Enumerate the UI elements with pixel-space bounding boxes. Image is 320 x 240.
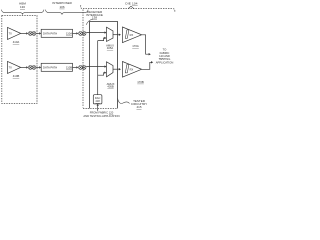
svg-text:DIE 104: DIE 104 (125, 2, 137, 6)
svg-text:410B: 410B (13, 74, 20, 78)
arrowhead (26, 66, 28, 68)
wire into amux A2 (86, 66, 104, 68)
svg-text:RX: RX (130, 67, 134, 71)
data path box 110A (41, 29, 72, 37)
svg-text:418: 418 (95, 99, 100, 103)
leader to TESTER CIRCUITRY (118, 98, 130, 103)
arrowhead (39, 32, 41, 34)
wire from fabric into DAC (97, 105, 99, 111)
wire TX1 to bump (21, 32, 27, 34)
svg-text:170B: 170B (137, 80, 144, 84)
brace tip under DIE label (128, 6, 134, 8)
mux AMUX 405B (107, 62, 115, 89)
wire to data path (36, 32, 39, 34)
receiver interface box U1 (90, 22, 118, 109)
amux2 output wire (113, 68, 119, 70)
arrowhead (76, 32, 78, 34)
svg-text:RX: RX (130, 33, 134, 37)
select line from DAC (97, 41, 99, 96)
arrowhead (26, 32, 28, 34)
arrowhead (105, 65, 107, 67)
leader from RECEIVER INTERFACE label (86, 19, 92, 25)
bump pair B2 (die edge) (79, 32, 86, 36)
svg-text:TX: TX (9, 32, 13, 36)
op-amp RX 170B (123, 62, 142, 78)
brace under INTERPOSER label (46, 10, 89, 15)
svg-text:106: 106 (59, 5, 64, 9)
data path box 110B (41, 63, 72, 71)
label TO FABRIC 120 AND TESTING APPLICATION (156, 48, 174, 65)
rx2 output wire up to arrow (142, 62, 151, 69)
amux1 output wire (113, 34, 119, 36)
svg-text:410A: 410A (13, 40, 20, 44)
DAC 418 (93, 95, 102, 104)
op-amp TX 410A (8, 27, 21, 39)
svg-text:405A: 405A (107, 46, 113, 50)
svg-text:DAC: DAC (95, 96, 101, 100)
bump pair B3 (28, 66, 35, 70)
label RECEIVER INTERFACE 138 (86, 10, 103, 20)
svg-text:170A: 170A (132, 44, 139, 48)
svg-text:405B: 405B (107, 85, 113, 89)
label INTERPOSER 106 (52, 1, 72, 9)
svg-text:DATA PATH: DATA PATH (43, 32, 57, 36)
bump pair B4 (79, 66, 86, 70)
svg-text:TX: TX (9, 66, 13, 70)
wire data path to bump (73, 32, 77, 34)
label TESTER CIRCUITRY 415 (131, 99, 147, 109)
svg-text:138: 138 (92, 16, 97, 20)
wire to data path 2 (36, 66, 39, 68)
svg-text:415: 415 (136, 105, 141, 109)
rx1 output wire down to arrow (142, 35, 149, 54)
brace under HBM label (2, 10, 44, 15)
label HBM 130 (19, 2, 26, 10)
select wire jog into AMUX2 lower input (98, 73, 105, 76)
op-amp TX 410B (8, 61, 21, 73)
arrowhead (105, 31, 107, 33)
arrowhead (76, 66, 78, 68)
wire TX2 to bump (21, 66, 27, 68)
arrowhead (39, 66, 41, 68)
DIE dashed outline (top edge with end curls, left edge, partial bottom) (81, 5, 175, 108)
die dashed bottom segment (88, 107, 118, 109)
op-amp RX 170A (123, 27, 142, 43)
HBM dashed outline (2, 16, 37, 104)
wire into amux A1 (86, 32, 104, 34)
label FROM FABRIC 120 AND TESTING APPLICATION (83, 111, 119, 118)
svg-text:DATA PATH: DATA PATH (43, 66, 57, 70)
wire data path2 to bump (73, 66, 77, 68)
svg-text:APPLICATION: APPLICATION (156, 60, 174, 64)
svg-text:110B: 110B (66, 66, 72, 70)
svg-text:AND TESTING APPLICATION: AND TESTING APPLICATION (83, 114, 119, 118)
svg-text:130: 130 (20, 5, 25, 9)
svg-text:110A: 110A (66, 32, 72, 36)
mux AMUX 405A (106, 27, 114, 50)
bump pair B1 (HBM edge) (28, 32, 35, 36)
select wire jog into AMUX1 lower input (98, 38, 105, 41)
